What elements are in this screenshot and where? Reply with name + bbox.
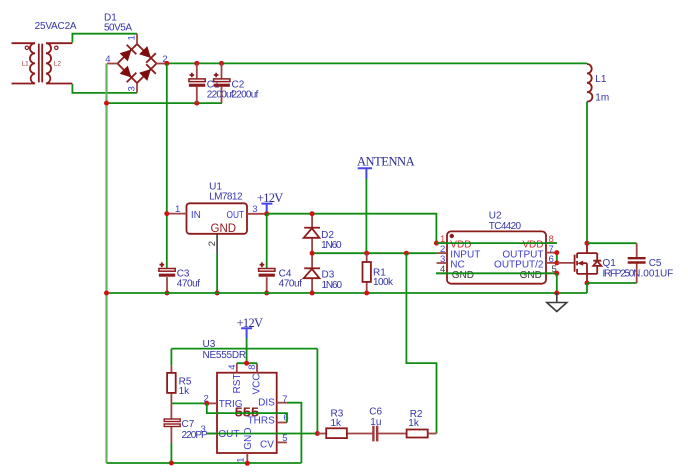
svg-text:C7: C7 xyxy=(182,419,195,430)
gate lead from U2 pin6 xyxy=(557,262,575,264)
diode 4-3 (bottom-left, points SE) xyxy=(120,66,137,83)
svg-text:IRFP250N: IRFP250N xyxy=(603,269,641,280)
capacitor C3 470uf xyxy=(159,262,200,293)
wire +12V rail to U2 pin1 xyxy=(267,214,437,243)
pin 3 OUT stub xyxy=(207,433,217,435)
diode 3-2 (bottom-right, points NE) xyxy=(139,64,156,81)
pin 2 TRIG stub xyxy=(207,402,217,404)
inductor L1 xyxy=(587,64,609,104)
pin 7 stub xyxy=(546,252,557,254)
diode 1-2 (top-right, points SE) xyxy=(139,46,156,63)
junction C4 at rail xyxy=(264,291,269,296)
drain lead xyxy=(577,243,597,253)
polarity dot primary xyxy=(25,46,28,49)
junction at C1 bottom xyxy=(194,101,199,106)
svg-text:8: 8 xyxy=(247,365,258,370)
pin 3 OUT stub xyxy=(247,213,267,215)
svg-text:CV: CV xyxy=(260,439,274,450)
svg-text:RST: RST xyxy=(232,374,243,394)
junction C7 bottom xyxy=(169,461,174,466)
bridge rectifier D1 xyxy=(104,13,168,93)
diamond outline xyxy=(118,44,157,83)
svg-text:GND: GND xyxy=(452,270,474,281)
junction OUT to R3 xyxy=(315,431,320,436)
gate bar xyxy=(574,255,576,272)
svg-text:2200uf: 2200uf xyxy=(232,89,259,100)
svg-text:GND: GND xyxy=(520,270,542,281)
pin 6 THRS stub xyxy=(277,422,287,424)
capacitor C4 470uf xyxy=(259,262,303,293)
junction antenna/R1 xyxy=(364,251,369,256)
svg-text:1: 1 xyxy=(236,458,247,463)
channel dashes xyxy=(576,253,578,274)
junction at left rail / cap bottom wire xyxy=(104,101,109,106)
svg-text:1m: 1m xyxy=(595,93,609,104)
svg-text:1k: 1k xyxy=(179,386,191,397)
wire DC- left rail (highlighted pale) from bridge pin4 down xyxy=(105,64,107,464)
resistor R3 1k xyxy=(317,408,373,438)
svg-text:1k: 1k xyxy=(331,418,343,429)
pin 2 stub xyxy=(437,252,447,254)
transistor Q1 IRFP250N (N-MOSFET with body diode) xyxy=(557,243,641,283)
junction U2 pin6 xyxy=(554,260,559,265)
junction D2/D3 xyxy=(310,251,315,256)
wire VDD net through U2 (pin1 to pin8) xyxy=(436,242,556,244)
secondary winding L2 xyxy=(46,43,72,83)
pin 1 stub xyxy=(436,242,447,244)
junction D3 bottom at rail xyxy=(310,291,315,296)
ground symbol xyxy=(547,293,567,312)
wire DIS down column xyxy=(287,403,302,463)
svg-text:LM7812: LM7812 xyxy=(209,192,243,203)
svg-text:TC4420: TC4420 xyxy=(489,221,522,232)
svg-text:1k: 1k xyxy=(408,418,420,429)
svg-text:ANTENNA: ANTENNA xyxy=(357,155,415,169)
pin 3 stub xyxy=(437,262,447,264)
svg-text:100k: 100k xyxy=(373,277,394,288)
junction Q1 source node xyxy=(585,281,590,286)
junction U2 pin1 xyxy=(434,241,439,246)
body diode xyxy=(593,253,601,274)
voltage regulator U1 LM7812 xyxy=(167,181,266,253)
svg-text:2200uf: 2200uf xyxy=(207,89,234,100)
pin 6 stub xyxy=(546,262,557,264)
svg-text:1: 1 xyxy=(127,35,138,40)
resistor R1 100k xyxy=(363,253,395,293)
svg-text:OUT: OUT xyxy=(227,210,245,221)
junction VCC jumper xyxy=(244,361,249,366)
svg-text:NE555DR: NE555DR xyxy=(203,350,247,361)
svg-text:4: 4 xyxy=(227,365,238,370)
pin 4 RST stub xyxy=(236,363,238,373)
pin 8 stub xyxy=(546,242,557,244)
svg-text:L2: L2 xyxy=(54,61,62,68)
svg-text:2: 2 xyxy=(207,241,218,246)
junction 555 GND xyxy=(245,461,250,466)
pin 5 CV stub xyxy=(277,441,287,443)
pin 2 GND stub (black) xyxy=(216,234,218,253)
wire R5 top feedback line to OUT column xyxy=(171,348,317,350)
wire pin7 to pin6 tie xyxy=(556,253,558,263)
svg-text:IN: IN xyxy=(191,210,201,221)
svg-text:5: 5 xyxy=(282,433,287,444)
svg-text:470uf: 470uf xyxy=(177,278,201,289)
svg-text:25VAC2A: 25VAC2A xyxy=(35,21,77,32)
transformer core xyxy=(39,44,42,83)
wire input branch down to R2 xyxy=(406,253,436,433)
junction left rail at ground rail xyxy=(104,291,109,296)
timer U3 NE555DR xyxy=(201,339,289,463)
svg-text:DIS: DIS xyxy=(258,398,275,409)
wire source node to C5 bottom xyxy=(587,282,637,284)
pin 4 stub xyxy=(436,272,447,274)
capacitor C2 2200uf xyxy=(214,63,259,103)
junction input to R2 branch xyxy=(404,251,409,256)
junction Q1 drain node xyxy=(585,241,590,246)
diode D3 1N60 xyxy=(304,253,343,293)
wire DC+ down to U1 IN and C3 xyxy=(166,63,168,268)
wire source node down to ground rail xyxy=(586,283,588,293)
pin 4 stub xyxy=(107,63,118,65)
pin 3 stub xyxy=(136,83,138,93)
wire U1 GND to ground rail xyxy=(216,253,218,293)
polarity dot secondary xyxy=(55,46,58,49)
wire bottom of C1/C2 to left rail xyxy=(107,102,223,104)
svg-text:C5: C5 xyxy=(649,258,662,269)
wire pin5 down to ground rail xyxy=(556,273,558,293)
pin 8 VCC stub xyxy=(256,363,258,373)
svg-text:+12V: +12V xyxy=(237,316,263,330)
wire TRIG to THRS loop xyxy=(207,403,287,422)
svg-text:VCC: VCC xyxy=(252,373,263,394)
wire transformer top to bridge pin1 xyxy=(72,34,137,43)
junction TRIG xyxy=(204,401,209,406)
svg-text:1u: 1u xyxy=(370,417,381,428)
junction C2 top xyxy=(219,61,224,66)
junction U1 GND at rail xyxy=(215,291,220,296)
diode D2 1N60 xyxy=(304,214,342,254)
junction bridge pin2 xyxy=(164,61,169,66)
svg-text:220PP: 220PP xyxy=(182,430,209,441)
svg-text:1N60: 1N60 xyxy=(322,280,343,291)
wire input line D2/D3 node to U2 pin2 xyxy=(312,252,437,254)
svg-text:6: 6 xyxy=(283,413,288,424)
svg-text:L1: L1 xyxy=(595,74,607,85)
antenna supply symbol xyxy=(357,155,415,179)
svg-text:555: 555 xyxy=(235,404,260,419)
supply symbol +12V at 555 VCC xyxy=(237,316,263,338)
svg-text:3: 3 xyxy=(127,86,138,91)
primary winding L1 xyxy=(12,43,36,83)
wire transformer bottom to bridge pin3 xyxy=(72,84,137,93)
svg-text:GND: GND xyxy=(211,223,237,235)
pin 2 stub xyxy=(157,63,167,65)
wire DC+ top rail from bridge pin2 to L1 xyxy=(167,62,587,64)
junction U2 pin7 xyxy=(554,250,559,255)
capacitor C1 2200uf xyxy=(189,63,234,103)
capacitor C5 .001UF xyxy=(628,243,674,283)
wire bottom return (left rail to DIS column) xyxy=(107,462,302,464)
pin 1 stub xyxy=(136,34,138,44)
capacitor C6 1u xyxy=(369,407,406,442)
svg-text:50V5A: 50V5A xyxy=(104,22,132,33)
svg-text:7: 7 xyxy=(282,394,287,405)
pin 1 IN stub xyxy=(167,213,186,215)
svg-text:+12V: +12V xyxy=(257,191,283,205)
MOSFET driver U2 TC4420 xyxy=(436,210,557,283)
wire ground rail xyxy=(107,292,588,294)
svg-text:GND: GND xyxy=(243,428,254,450)
resistor R5 1k xyxy=(167,349,192,404)
wire L1 down to Q1 drain node xyxy=(586,102,588,244)
wire U1 OUT node down to C4 xyxy=(266,214,268,269)
svg-text:Q1: Q1 xyxy=(603,258,617,269)
junction D2 top on +12V rail xyxy=(310,211,315,216)
diode 4-1 (top-left, points NE) xyxy=(120,45,137,62)
junction U2 pin5 xyxy=(554,271,559,276)
wire TRIG line xyxy=(171,402,206,404)
svg-text:1: 1 xyxy=(175,204,180,215)
wire GND net through U2 (pin4 to pin5) xyxy=(436,272,557,274)
wire +12V down to pin4/8 jumper xyxy=(246,338,248,363)
source lead xyxy=(577,263,597,283)
capacitor C7 220PP xyxy=(164,403,208,463)
pin 5 stub xyxy=(546,272,557,274)
wire drain node to C5 top xyxy=(587,242,637,244)
junction U1 pin1 xyxy=(164,211,169,216)
junction R1 bottom at rail xyxy=(364,291,369,296)
transformer TR1 25VAC2A xyxy=(12,21,77,84)
wire pin4 to pin8 jumper xyxy=(237,362,257,364)
svg-text:3: 3 xyxy=(252,204,257,215)
bulk arrow xyxy=(583,262,588,264)
pin 1 indicator dot xyxy=(450,234,454,238)
junction C1 top xyxy=(194,61,199,66)
junction U1 OUT node xyxy=(264,211,269,216)
svg-text:U2: U2 xyxy=(489,210,502,221)
svg-text:1N60: 1N60 xyxy=(321,240,342,251)
junction C3 at rail xyxy=(165,291,170,296)
svg-text:L1: L1 xyxy=(22,61,30,68)
svg-text:.001UF: .001UF xyxy=(641,269,674,280)
resistor R2 1k xyxy=(407,409,437,438)
svg-text:470uf: 470uf xyxy=(279,278,303,289)
supply symbol +12V at U1 OUT xyxy=(257,191,283,214)
pin 7 DIS stub xyxy=(277,402,287,404)
wire OUT column down xyxy=(316,349,318,434)
junction ground symbol at rail xyxy=(554,291,559,296)
pin 1 GND stub xyxy=(246,453,248,463)
wire 555 OUT line xyxy=(207,433,318,435)
wire antenna down to input node xyxy=(365,179,367,254)
